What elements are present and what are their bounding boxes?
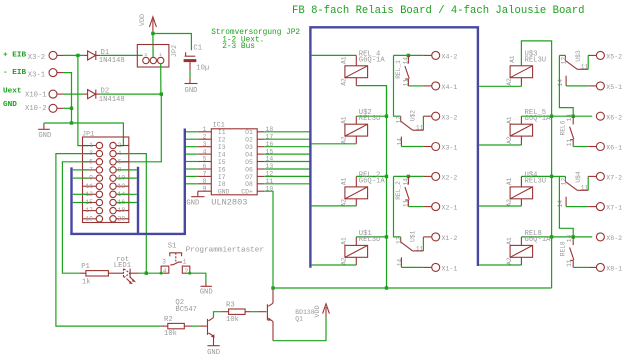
svg-text:+ EIB: + EIB	[3, 51, 26, 59]
wire JP1 pin14 to bus	[117, 193, 137, 195]
svg-text:A2: A2	[340, 136, 347, 144]
svg-text:20: 20	[118, 215, 126, 222]
svg-text:14: 14	[566, 235, 573, 243]
svg-text:GND: GND	[207, 349, 220, 357]
wire U$3 A2 to bus	[520, 78, 522, 87]
wire +EIB	[63, 54, 83, 56]
wire VDD to C1	[153, 34, 192, 51]
svg-text:A1: A1	[506, 177, 513, 185]
junction Uext/JP2 pin1	[160, 92, 163, 95]
svg-text:U$4: U$4	[575, 171, 582, 182]
svg-text:14: 14	[557, 200, 564, 208]
wire R3 to Q1 base	[252, 311, 258, 313]
svg-text:2-3 Bus: 2-3 Bus	[222, 43, 255, 51]
bus to IC1	[184, 129, 186, 234]
svg-text:U$1: U$1	[410, 230, 417, 241]
pad X8-1	[588, 266, 596, 268]
wires IC1 outputs to bus	[264, 131, 310, 133]
relay contact U$4 (changeover)	[552, 175, 566, 177]
wire JP1 pin3 to R2	[56, 154, 161, 327]
jumper JP2	[137, 45, 169, 68]
svg-text:11: 11	[566, 139, 573, 147]
svg-text:7: 7	[89, 167, 93, 174]
pad X7-2	[588, 175, 596, 177]
svg-text:X1-2: X1-2	[442, 235, 458, 242]
wire U$1 A2 to bus	[355, 257, 357, 265]
relay coil U$1 REL3U	[356, 236, 386, 238]
wire VDD vertical (left relays)	[386, 86, 388, 288]
relay coil U$3 REL3U	[510, 66, 532, 78]
svg-text:FB 8-fach Relais Board / 4-fac: FB 8-fach Relais Board / 4-fach Jalousie…	[292, 5, 584, 17]
wire REL_4 A2 to VDD	[355, 78, 357, 86]
svg-text:11: 11	[402, 199, 409, 207]
wire Q1 emitter to VDD	[272, 321, 274, 340]
wire JP1 pin8 to bus	[117, 169, 137, 171]
svg-text:2: 2	[203, 133, 207, 140]
svg-text:O5: O5	[245, 159, 253, 166]
svg-text:X8-1: X8-1	[606, 266, 622, 273]
wire -EIB	[63, 73, 72, 123]
svg-text:GND: GND	[3, 101, 17, 109]
svg-text:5: 5	[89, 158, 93, 165]
relay coil U$2 REL3U	[356, 115, 386, 117]
svg-text:A1: A1	[509, 55, 516, 63]
pad X4-2	[423, 54, 431, 56]
svg-text:X3-2: X3-2	[28, 54, 45, 62]
wire S1 to GND	[190, 273, 206, 281]
wire contact 11 to X1-2	[422, 237, 424, 251]
relay contact U$3 (changeover)	[559, 54, 565, 56]
svg-text:O1: O1	[245, 129, 253, 136]
junction rail/CD+/Q1	[271, 286, 274, 289]
svg-text:A1: A1	[340, 56, 347, 64]
svg-text:I6: I6	[218, 166, 226, 173]
svg-text:LED1: LED1	[114, 262, 131, 270]
bus JP1 bottom	[70, 233, 186, 235]
bus JP1 middle	[137, 167, 139, 234]
svg-text:ULN2803: ULN2803	[211, 198, 247, 208]
svg-text:10µ: 10µ	[196, 65, 209, 73]
svg-text:X5-1: X5-1	[606, 84, 622, 91]
svg-text:2: 2	[118, 142, 122, 149]
wire JP1 pin15 to bus	[73, 202, 89, 204]
svg-text:10k: 10k	[164, 330, 177, 338]
relay coil REL_2 G6Q-1A	[356, 175, 386, 177]
junction VDD rail left	[385, 286, 388, 289]
svg-text:REL3U: REL3U	[525, 56, 547, 64]
svg-text:I2: I2	[218, 137, 226, 144]
svg-text:1N4148: 1N4148	[99, 96, 125, 104]
svg-text:A1: A1	[506, 116, 513, 124]
wire JP1 pin5 to P1	[62, 162, 88, 273]
svg-text:2: 2	[184, 268, 188, 275]
wire GND to JP1 pin2	[44, 123, 124, 146]
svg-text:8: 8	[203, 178, 207, 185]
svg-text:1: 1	[89, 142, 93, 149]
wire D2 cathode to JP2 pin1	[100, 93, 161, 95]
svg-text:- EIB: - EIB	[3, 69, 26, 77]
svg-text:9: 9	[89, 175, 93, 182]
junction LED/S1/JP1 pin4	[145, 272, 148, 275]
svg-text:6: 6	[203, 163, 207, 170]
svg-text:1: 1	[203, 126, 207, 133]
svg-text:18: 18	[118, 207, 126, 214]
svg-text:REL3U: REL3U	[525, 178, 547, 186]
junction VDD/C1	[151, 32, 154, 35]
wire Q2 collector to R3	[214, 312, 222, 318]
svg-text:11: 11	[85, 183, 93, 190]
wire contact 11 to X5-2	[587, 55, 589, 69]
svg-text:14: 14	[396, 138, 403, 146]
svg-text:A1: A1	[506, 237, 513, 245]
svg-text:1: 1	[183, 259, 187, 266]
wire contact to X8-1	[573, 266, 588, 268]
svg-text:4: 4	[163, 268, 167, 275]
wire REL8 A2 to bus	[520, 257, 522, 265]
svg-text:O8: O8	[245, 181, 253, 188]
svg-text:X5-2: X5-2	[606, 54, 622, 61]
svg-text:O3: O3	[245, 144, 253, 151]
svg-text:7: 7	[203, 171, 207, 178]
svg-text:14: 14	[566, 114, 573, 122]
svg-text:X3-1: X3-1	[28, 71, 45, 79]
svg-text:12: 12	[560, 178, 567, 186]
svg-text:GND: GND	[38, 132, 51, 140]
svg-text:11: 11	[416, 245, 424, 252]
svg-text:G6Q-1A: G6Q-1A	[525, 236, 552, 244]
wire contact 11 to X7-2	[587, 176, 589, 190]
svg-text:X4-1: X4-1	[442, 84, 458, 91]
svg-text:12: 12	[118, 183, 126, 190]
wire +EIB to JP1 pin1	[78, 55, 89, 145]
svg-text:X7-1: X7-1	[606, 205, 622, 212]
svg-text:14: 14	[557, 79, 564, 87]
wire contact to X6-1	[573, 146, 588, 148]
svg-text:VDD: VDD	[314, 305, 322, 317]
power symbol VDD (top)	[152, 20, 154, 34]
wire JP1 pin13 to bus	[73, 193, 89, 195]
pad X3-2	[423, 115, 431, 117]
wire U$3 common to REL_6 node	[559, 55, 573, 116]
pad X1-2	[423, 236, 431, 238]
svg-text:VDD: VDD	[139, 14, 147, 26]
svg-text:10k: 10k	[226, 316, 239, 324]
wire contact 14 to X5-1	[566, 85, 588, 87]
wire JP1 pin4 to LED node	[117, 154, 146, 274]
svg-text:BC547: BC547	[175, 306, 197, 314]
wire U$4 A2 to bus	[520, 199, 522, 206]
svg-text:I7: I7	[218, 174, 226, 181]
junction GND/X10-2	[70, 107, 73, 110]
svg-text:REL3U: REL3U	[359, 236, 381, 244]
svg-text:11: 11	[581, 185, 589, 192]
pad X7-1	[588, 206, 596, 208]
svg-text:R2: R2	[164, 316, 173, 324]
svg-text:I5: I5	[218, 159, 226, 166]
relay coil REL_4 G6Q-1A	[312, 54, 357, 56]
svg-text:REL3U: REL3U	[359, 115, 381, 123]
svg-text:U$2: U$2	[410, 110, 417, 121]
svg-text:REL8: REL8	[560, 241, 567, 256]
svg-text:11: 11	[566, 259, 573, 267]
svg-text:REL_1: REL_1	[395, 60, 402, 79]
svg-text:S1: S1	[168, 242, 177, 250]
svg-text:14: 14	[402, 178, 409, 186]
svg-text:A2: A2	[340, 78, 347, 86]
svg-text:GND: GND	[200, 288, 213, 296]
relay contact U$1 (changeover)	[400, 237, 402, 242]
svg-text:9: 9	[203, 185, 207, 192]
svg-text:A2: A2	[506, 199, 513, 207]
svg-text:I1: I1	[218, 129, 226, 136]
svg-text:I8: I8	[218, 181, 226, 188]
svg-text:2: 2	[152, 52, 155, 58]
svg-text:GND: GND	[185, 87, 198, 95]
svg-text:CD+: CD+	[241, 189, 253, 196]
svg-text:I3: I3	[218, 144, 226, 151]
wire JP1 pin9 to bus	[73, 177, 89, 179]
wire LED1 to S1	[139, 272, 162, 274]
diode D1	[83, 54, 87, 56]
svg-text:X6-1: X6-1	[606, 145, 622, 152]
svg-text:Programmiertaster: Programmiertaster	[186, 247, 264, 255]
svg-text:1: 1	[159, 52, 162, 58]
svg-text:Q1: Q1	[295, 316, 303, 323]
svg-text:X10-2: X10-2	[25, 105, 47, 113]
wire JP2 pin1 to Uext net	[160, 64, 162, 94]
wire JP1 pin16 to bus	[117, 202, 137, 204]
ground symbol GND (IC1)	[197, 191, 199, 196]
wire contact 14 to X1-1	[401, 266, 423, 268]
svg-text:O2: O2	[245, 137, 253, 144]
svg-text:1k: 1k	[82, 278, 91, 286]
svg-text:11: 11	[402, 79, 409, 87]
svg-text:X7-2: X7-2	[606, 175, 622, 182]
svg-text:G6Q-1A: G6Q-1A	[525, 115, 552, 123]
svg-text:X3-1: X3-1	[442, 145, 458, 152]
svg-text:5: 5	[203, 156, 207, 163]
svg-text:X4-2: X4-2	[442, 54, 458, 61]
pad X3-1	[423, 146, 431, 148]
wire JP1 pin7 to bus	[73, 169, 89, 171]
svg-text:X2-1: X2-1	[442, 205, 458, 212]
wire X10-2 GND	[63, 107, 72, 109]
svg-text:A2: A2	[340, 257, 347, 265]
svg-text:4: 4	[203, 148, 207, 155]
svg-text:A2: A2	[506, 136, 513, 144]
relay contact REL_2	[394, 175, 424, 177]
svg-text:3: 3	[203, 141, 207, 148]
svg-text:R3: R3	[226, 302, 235, 310]
pad X4-1	[423, 85, 431, 87]
wire contact to X2-1	[408, 206, 423, 208]
svg-text:X3-2: X3-2	[442, 114, 458, 121]
junction GND wire	[70, 121, 73, 124]
wire JP1 pin10 to bus	[117, 177, 137, 179]
svg-text:12: 12	[560, 57, 567, 65]
svg-text:17: 17	[85, 207, 93, 214]
svg-text:A1: A1	[340, 237, 347, 245]
svg-text:G6Q-1A: G6Q-1A	[359, 56, 386, 64]
wire JP2 pin1 down to JP1 pin6	[117, 94, 161, 162]
pad X5-1	[588, 85, 596, 87]
svg-text:REL_2: REL_2	[395, 181, 402, 200]
svg-text:P1: P1	[81, 263, 90, 271]
power symbol VDD (Q1)	[325, 307, 327, 317]
bus relay drive	[310, 27, 478, 267]
wire U$4 common to REL8 node	[559, 176, 573, 237]
svg-text:3: 3	[162, 259, 166, 266]
diode D2	[83, 93, 87, 95]
wire R2 to Q2 base	[192, 325, 200, 327]
svg-text:GND: GND	[186, 199, 199, 207]
wire REL_2 A2 to bus	[355, 199, 357, 206]
relay coil REL8 G6Q-1A	[521, 236, 551, 238]
wire Uext to D2	[63, 93, 83, 95]
pad X8-2	[596, 233, 604, 241]
pad X6-2	[596, 112, 604, 120]
pad X5-2	[588, 54, 596, 56]
svg-text:6: 6	[118, 158, 122, 165]
relay contact U$2 (changeover)	[400, 116, 402, 121]
svg-text:1N4148: 1N4148	[99, 57, 125, 65]
wire contact 14 to X3-1	[401, 146, 423, 148]
svg-text:A2: A2	[506, 257, 513, 265]
svg-text:11: 11	[416, 125, 424, 132]
bus JP1 left	[70, 167, 72, 234]
svg-text:19: 19	[85, 215, 93, 222]
svg-text:I4: I4	[218, 152, 226, 159]
svg-text:G6Q-1A: G6Q-1A	[359, 178, 386, 186]
svg-text:O6: O6	[245, 166, 253, 173]
wire contact REL_2 to U$1 common	[394, 176, 401, 237]
svg-text:12: 12	[395, 236, 402, 244]
svg-text:A2: A2	[506, 78, 513, 86]
svg-text:JP2: JP2	[171, 45, 179, 57]
relay contact REL8	[552, 236, 593, 238]
svg-text:3: 3	[89, 150, 93, 157]
svg-text:U$3: U$3	[575, 50, 582, 61]
svg-text:Uext: Uext	[3, 88, 21, 96]
svg-text:11: 11	[581, 64, 589, 71]
svg-text:O4: O4	[245, 152, 253, 159]
svg-text:3: 3	[144, 52, 147, 58]
relay coil REL_5 G6Q-1A	[521, 115, 551, 117]
wire contact REL_1 to U$2 common	[394, 55, 401, 116]
svg-text:X2-2: X2-2	[442, 175, 458, 182]
wire VDD to JP2 pin2	[152, 34, 154, 58]
wire Q1 collector to rail	[272, 288, 274, 303]
svg-text:X6-2: X6-2	[606, 114, 622, 121]
ground symbol GND (Q2)	[213, 336, 215, 345]
svg-text:14: 14	[402, 57, 409, 65]
wire VDD relay rail	[273, 287, 552, 289]
svg-text:O7: O7	[245, 174, 253, 181]
wire C1 to GND	[189, 71, 191, 78]
pad X6-1	[588, 146, 596, 148]
svg-text:A1: A1	[340, 116, 347, 124]
svg-text:X1-1: X1-1	[442, 266, 458, 273]
svg-text:C1: C1	[193, 44, 202, 52]
wire contact 14 to X7-1	[566, 206, 588, 208]
svg-text:12: 12	[395, 116, 402, 124]
wire REL_5 A2 to bus	[520, 136, 522, 145]
ground symbol GND (C1)	[189, 78, 191, 84]
junction +EIB/JP1 pin1	[76, 54, 79, 57]
wire IC1 CD+ to VDD rail	[264, 191, 273, 288]
relay contact REL6	[552, 115, 593, 117]
relay contact REL_1	[394, 54, 424, 56]
ground symbol GND (S1)	[205, 281, 207, 286]
svg-text:REL6: REL6	[560, 120, 567, 135]
wire D1 cathode to JP2 pin3	[100, 54, 142, 56]
svg-text:14: 14	[396, 259, 403, 267]
ground symbol GND (left)	[43, 123, 45, 129]
svg-text:A1: A1	[340, 177, 347, 185]
pad X1-1	[423, 266, 431, 268]
svg-text:GND: GND	[218, 189, 230, 196]
svg-text:X8-2: X8-2	[606, 235, 622, 242]
svg-text:X10-1: X10-1	[25, 92, 47, 100]
wire VDD vertical (right relays)	[521, 41, 551, 288]
wire contact to X4-1	[408, 85, 423, 87]
wire U$2 A2 to bus	[355, 136, 357, 144]
wire contact 11 to X3-2	[422, 116, 424, 130]
relay coil U$4 REL3U	[521, 175, 551, 177]
pad X2-1	[423, 206, 431, 208]
wires IC1 inputs to bus	[186, 131, 198, 133]
pad X2-2	[423, 175, 431, 177]
